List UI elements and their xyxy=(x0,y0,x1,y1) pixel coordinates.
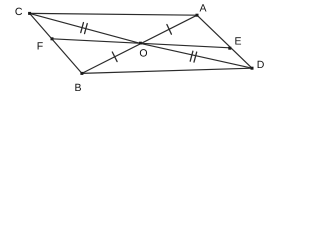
wire BD (bottom side) xyxy=(82,68,252,73)
point F xyxy=(51,37,54,40)
tick double on OD (1st) xyxy=(190,51,193,61)
point A xyxy=(196,14,199,17)
point B xyxy=(80,72,83,75)
svg-text:O: O xyxy=(139,48,147,60)
wire CD (diagonal through O) xyxy=(30,13,252,68)
wire AB (diagonal through O) xyxy=(82,15,197,73)
point C xyxy=(28,12,31,15)
point O (intersection) xyxy=(139,42,142,45)
svg-text:B: B xyxy=(74,82,81,94)
tick double on CO (1st) xyxy=(81,23,84,33)
tick single on OB xyxy=(112,52,117,62)
svg-text:E: E xyxy=(234,36,241,48)
tick single on OA xyxy=(167,25,172,35)
wire AD (right side through E) xyxy=(197,15,252,68)
point E xyxy=(228,47,231,50)
svg-text:C: C xyxy=(15,6,23,18)
svg-text:F: F xyxy=(37,41,43,53)
tick double on CO (2nd) xyxy=(85,24,88,34)
svg-text:A: A xyxy=(199,2,206,14)
wire CB (left side through F) xyxy=(30,13,82,73)
tick double on OD (2nd) xyxy=(194,52,197,62)
wire CA (top side) xyxy=(30,13,197,15)
point D xyxy=(251,67,254,70)
svg-text:D: D xyxy=(257,59,265,71)
wire FE (line through O from F to E) xyxy=(52,39,230,48)
